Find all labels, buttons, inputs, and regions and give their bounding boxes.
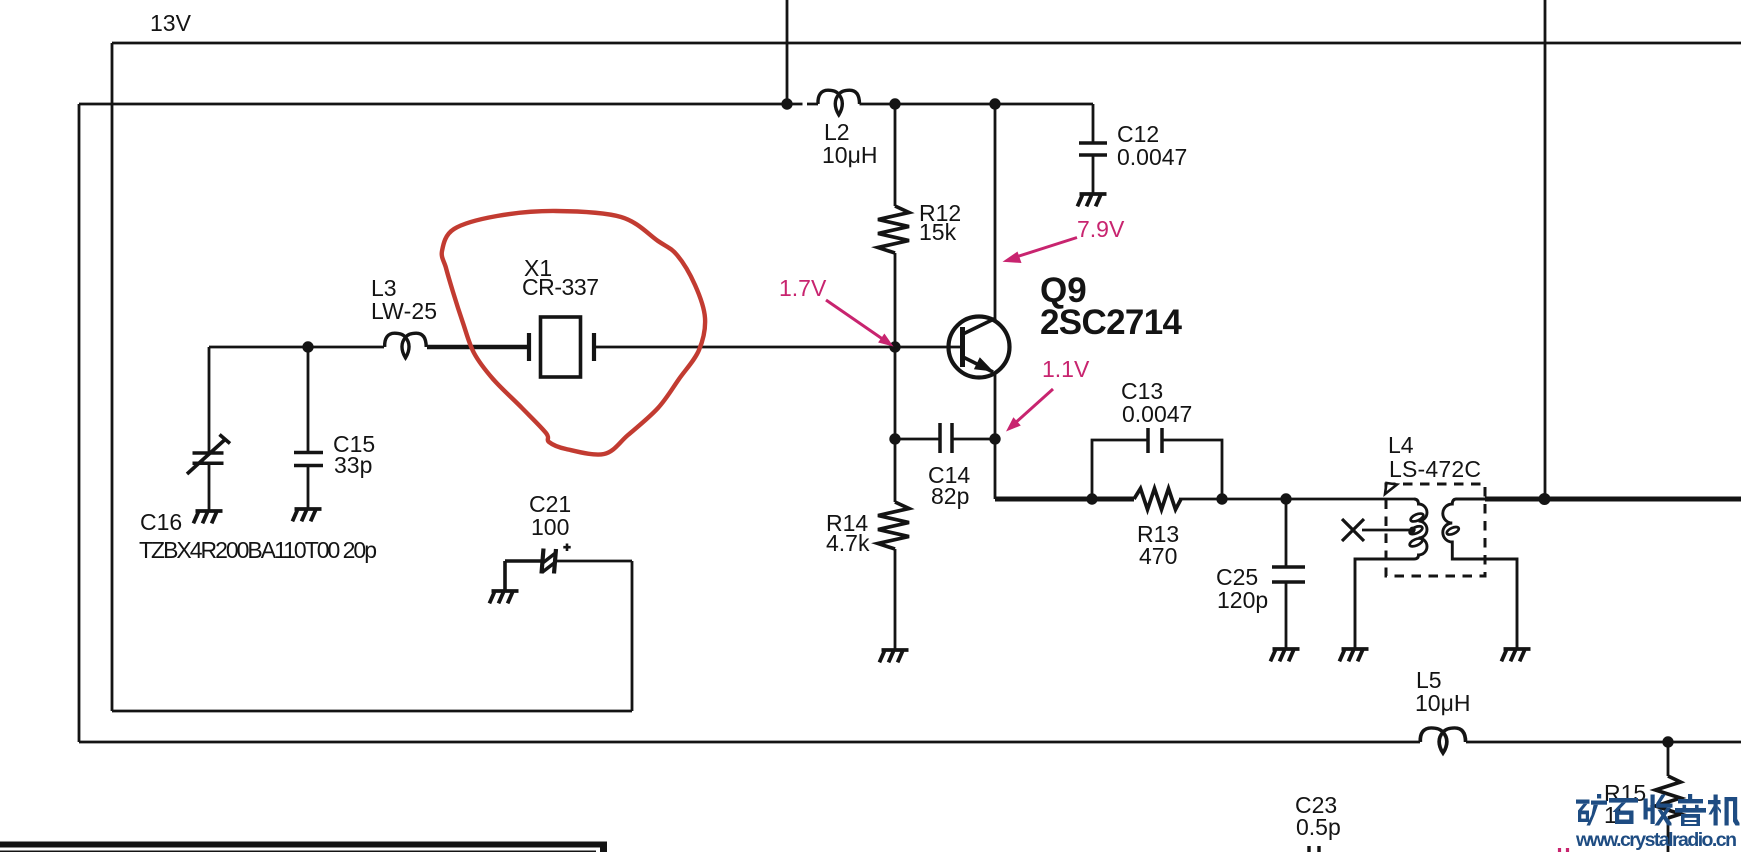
wire 13V rail — [112, 42, 1741, 45]
wire inner bottom — [112, 710, 632, 713]
capacitor C13 — [1148, 428, 1162, 453]
svg-text:0.0047: 0.0047 — [1122, 401, 1192, 427]
capacitor C21 polarized — [542, 544, 571, 574]
wire C25 branch — [1285, 499, 1288, 648]
wire C15 branch — [307, 347, 310, 508]
resistor R14 — [878, 502, 909, 549]
wire bottom rail — [79, 741, 1741, 744]
svg-text:15k: 15k — [919, 219, 957, 245]
svg-text:L4: L4 — [1388, 432, 1414, 458]
svg-text:33p: 33p — [334, 452, 372, 478]
wire left 13V drop — [111, 43, 114, 711]
svg-text:10μH: 10μH — [822, 142, 877, 168]
magenta arrow 7.9V — [1003, 238, 1078, 264]
inductor L3 — [385, 333, 427, 358]
wire base — [594, 346, 961, 349]
resistor R12 — [878, 206, 909, 253]
svg-text:LS-472C: LS-472C — [1389, 456, 1481, 482]
svg-text:13V: 13V — [150, 10, 192, 36]
wire output right thick — [1485, 497, 1741, 502]
svg-text:LW-25: LW-25 — [371, 298, 437, 324]
wire R12 bottom to R14 — [894, 253, 897, 502]
wire R12 top — [894, 104, 897, 206]
svg-text:CR-337: CR-337 — [522, 274, 599, 300]
resistor R13 — [1134, 489, 1181, 510]
L4 tap cross — [1342, 519, 1364, 541]
wire C16 branch — [208, 347, 211, 510]
thick wires — [427, 347, 1741, 590]
svg-text:10μH: 10μH — [1415, 690, 1470, 716]
transformer L4 — [1342, 483, 1517, 648]
wire R15 stubs — [1667, 742, 1670, 852]
svg-text:100: 100 — [531, 514, 569, 540]
wire R14 bottom — [894, 549, 897, 649]
magenta bottom ticks — [1560, 848, 1568, 852]
magenta arrow 1.7V — [826, 300, 894, 347]
svg-text:C16: C16 — [140, 509, 182, 535]
char shou — [1644, 795, 1673, 826]
svg-text:0.5p: 0.5p — [1296, 814, 1341, 840]
capacitor C14 — [940, 423, 952, 453]
svg-text:120p: 120p — [1217, 587, 1268, 613]
svg-text:www.crystalradio.cn: www.crystalradio.cn — [1575, 829, 1737, 851]
ground L4 secondary — [1501, 649, 1530, 661]
wire C21 right — [556, 560, 632, 563]
L4 primary winding — [1355, 499, 1427, 648]
svg-text:TZBX4R200BA110T00 20p: TZBX4R200BA110T00 20p — [139, 537, 377, 563]
transistor Q9 — [949, 317, 1010, 378]
capacitor C12 — [1079, 143, 1107, 155]
watermark chinese logo — [1576, 794, 1740, 826]
inductor L5 — [1420, 728, 1465, 753]
crystal X1 — [529, 317, 594, 377]
char ji — [1708, 795, 1740, 826]
wire emitter output thick — [995, 497, 1134, 502]
ground C15 — [292, 509, 321, 521]
capacitor C23 stub — [1309, 846, 1319, 852]
capacitor C16 variable — [193, 453, 224, 463]
wire tap — [1362, 529, 1410, 532]
magenta arrow 1.1V — [1006, 389, 1053, 432]
wire top right stub — [1544, 0, 1547, 499]
resistor R15 — [1656, 776, 1681, 818]
wire C21 left — [505, 561, 541, 590]
ground R14 — [879, 650, 908, 662]
ground C21 — [489, 591, 518, 603]
char yin — [1675, 794, 1706, 826]
wire C14 links — [895, 438, 995, 441]
svg-text:82p: 82p — [931, 483, 969, 509]
capacitor C15 — [294, 453, 323, 466]
ground L4 primary — [1339, 649, 1368, 661]
wire R13 right thin — [1179, 498, 1414, 501]
wire left node horizontal — [209, 346, 384, 349]
ground C12 — [1077, 194, 1106, 206]
ground C16 — [193, 511, 222, 523]
wire C21 right riser — [631, 561, 634, 711]
char shi — [1609, 798, 1638, 824]
red hand-drawn circle around X1 — [442, 211, 705, 455]
wire X1 left thick — [427, 345, 529, 350]
svg-text:1.1V: 1.1V — [1042, 356, 1090, 382]
ground C25 — [1270, 649, 1299, 661]
wire collector — [994, 104, 997, 319]
wire emitter down — [994, 373, 997, 499]
char kuang — [1576, 794, 1607, 826]
wire rail2 — [79, 103, 1093, 106]
svg-text:4.7k: 4.7k — [826, 530, 870, 556]
svg-text:7.9V: 7.9V — [1077, 216, 1125, 242]
wire C13 loop — [1092, 440, 1222, 499]
svg-text:2SC2714: 2SC2714 — [1040, 303, 1183, 342]
wire C12 branch — [1092, 104, 1095, 193]
black table corner bottom-left — [0, 842, 607, 852]
wire left outer drop — [78, 104, 81, 742]
wire top stub A — [786, 0, 789, 104]
capacitor C25 — [1272, 567, 1305, 582]
L4 secondary winding — [1443, 499, 1517, 648]
svg-text:0.0047: 0.0047 — [1117, 144, 1187, 170]
svg-text:1.7V: 1.7V — [779, 275, 827, 301]
svg-text:470: 470 — [1139, 543, 1177, 569]
inductor L2 — [818, 90, 860, 115]
